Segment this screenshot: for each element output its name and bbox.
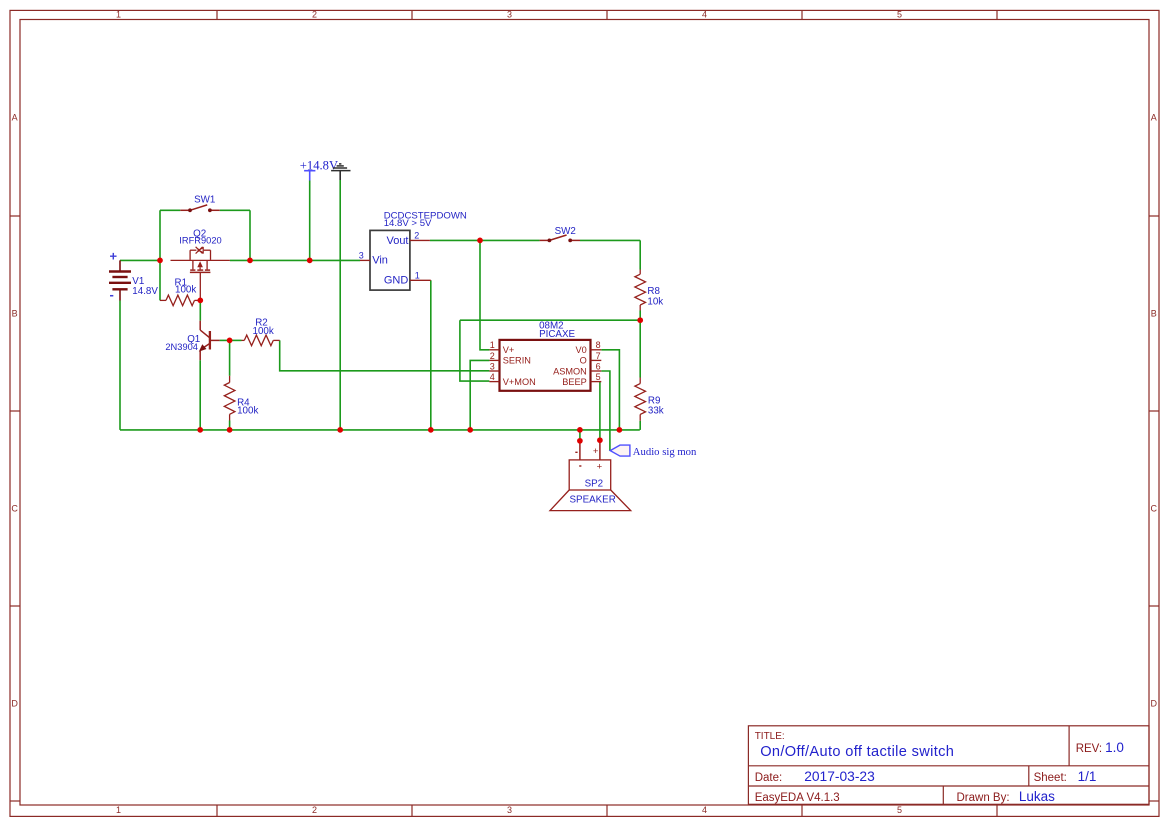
wire gate node to Q1 collector <box>199 300 201 320</box>
svg-text:4: 4 <box>490 372 495 382</box>
svg-text:3: 3 <box>359 250 364 260</box>
svg-text:ASMON: ASMON <box>553 366 587 376</box>
wire DCDC GND down to rail <box>430 280 432 430</box>
svg-text:Audio sig mon: Audio sig mon <box>633 446 697 458</box>
svg-text:A: A <box>12 112 18 122</box>
junction 5V net / Vout <box>477 238 483 244</box>
wire BEEP pin5 to speaker+ <box>599 382 601 441</box>
junction SW1 right / main wire <box>247 258 253 264</box>
pin 7 <box>591 351 602 361</box>
svg-text:+: + <box>593 446 599 457</box>
svg-text:V+MON: V+MON <box>503 377 536 387</box>
junction Q1 emitter / ground rail <box>197 427 203 433</box>
junction SERIN / ground rail <box>467 427 473 433</box>
wire to SW1 <box>160 209 180 211</box>
svg-text:2: 2 <box>312 10 317 20</box>
junction speaker- pin <box>577 438 583 444</box>
wire Q1 base to node <box>220 339 230 341</box>
wire R2 to pin3 <box>280 340 490 370</box>
svg-text:V+: V+ <box>503 345 515 355</box>
junction R4 / ground rail <box>227 427 233 433</box>
wire Q1 emitter to rail <box>199 360 201 430</box>
wire down to R8 <box>639 240 641 269</box>
pin 3 <box>489 361 499 371</box>
wire +14.8V flag down <box>309 181 311 261</box>
svg-text:4: 4 <box>702 805 707 815</box>
title block <box>748 726 1149 805</box>
svg-text:REV:: REV: <box>1076 743 1102 755</box>
wire SW1 left vertical <box>159 210 161 300</box>
wire SW2 to R8 <box>580 239 640 241</box>
resistor R2 100k <box>242 318 280 346</box>
svg-text:TITLE:: TITLE: <box>755 731 785 742</box>
svg-text:2N3904: 2N3904 <box>165 342 198 352</box>
wire Vout to SW2 <box>430 239 540 241</box>
svg-text:A: A <box>1151 112 1157 122</box>
transistor Q1 2N3904 <box>165 321 219 361</box>
resistor R4 100k <box>224 376 258 421</box>
junction speaker- / ground rail <box>577 427 583 433</box>
svg-text:2: 2 <box>414 231 419 241</box>
svg-text:B: B <box>1151 309 1157 319</box>
switch SW1 <box>180 194 219 212</box>
svg-text:1/1: 1/1 <box>1078 769 1097 784</box>
speaker SP2 <box>550 440 631 510</box>
svg-text:5: 5 <box>897 805 902 815</box>
svg-text:3: 3 <box>507 10 512 20</box>
svg-text:14.8V > 5V: 14.8V > 5V <box>384 218 432 229</box>
pin 1 GND <box>410 270 431 280</box>
wire ground symbol down <box>339 180 341 430</box>
svg-text:EasyEDA V4.1.3: EasyEDA V4.1.3 <box>755 792 840 804</box>
svg-text:1.0: 1.0 <box>1105 740 1124 755</box>
svg-text:B: B <box>12 309 18 319</box>
wire R8 node across <box>460 319 640 321</box>
pin 2 <box>489 351 499 361</box>
wire through Q2 (pins) <box>171 259 230 261</box>
svg-text:4: 4 <box>702 10 707 20</box>
svg-text:PICAXE: PICAXE <box>539 329 575 340</box>
battery V1 14.8V <box>109 249 158 302</box>
wire ground rail <box>120 429 640 431</box>
svg-text:D: D <box>11 699 18 709</box>
pin 3 Vin <box>359 250 370 260</box>
svg-text:V0: V0 <box>576 345 587 355</box>
svg-text:14.8V: 14.8V <box>132 286 158 297</box>
wire V0 pin8 to rail <box>601 350 619 430</box>
svg-text:2: 2 <box>490 351 495 361</box>
svg-text:1: 1 <box>415 270 420 280</box>
wire battery+ to node <box>120 259 160 261</box>
junction +14.8V net / main wire <box>307 258 313 264</box>
pin 2 Vout <box>410 231 430 241</box>
svg-text:1: 1 <box>490 340 495 350</box>
svg-text:5: 5 <box>897 10 902 20</box>
pin 5 <box>591 372 602 382</box>
net flag Audio sig mon <box>610 445 697 458</box>
svg-text:O: O <box>580 356 587 366</box>
wire SERIN pin2 to rail <box>470 360 489 430</box>
svg-text:100k: 100k <box>237 406 258 417</box>
pin 4 <box>489 372 499 382</box>
wire SW1 to right vertical <box>220 209 250 211</box>
svg-text:On/Off/Auto off tactile switch: On/Off/Auto off tactile switch <box>760 744 954 760</box>
transistor Q2 IRFR9020 (P-MOSFET) <box>179 228 221 300</box>
svg-text:100k: 100k <box>175 285 196 296</box>
junction R1/Q2 gate/Q1 collector <box>197 298 203 304</box>
wire battery- down <box>119 301 121 430</box>
svg-text:7: 7 <box>596 351 601 361</box>
wire 5V to V+ pin1 <box>480 240 489 349</box>
svg-text:Vout: Vout <box>386 235 408 247</box>
wire node to R9 <box>639 320 641 377</box>
junction speaker+ pin <box>597 437 603 443</box>
wire rail to speaker- <box>579 430 581 441</box>
svg-text:100k: 100k <box>253 326 274 337</box>
svg-text:2: 2 <box>312 805 317 815</box>
svg-text:SP2: SP2 <box>585 478 604 489</box>
wire node to R4 <box>229 340 231 375</box>
svg-text:+: + <box>597 462 603 473</box>
svg-text:GND: GND <box>384 275 409 287</box>
pin 1 <box>489 340 499 350</box>
svg-text:C: C <box>11 504 18 514</box>
svg-text:3: 3 <box>490 361 495 371</box>
svg-text:SPEAKER: SPEAKER <box>570 495 616 506</box>
ground <box>331 164 350 180</box>
wire to V+MON pin4 <box>460 320 490 381</box>
pin 8 <box>591 340 602 350</box>
wire SW1 right vertical <box>249 210 251 260</box>
wire node to Vin <box>230 259 360 261</box>
junction V0 / ground rail <box>617 427 623 433</box>
svg-text:8: 8 <box>596 340 601 350</box>
junction DCDC GND / ground rail <box>428 427 434 433</box>
svg-text:Vin: Vin <box>372 255 388 267</box>
svg-text:+: + <box>110 249 118 264</box>
svg-text:2017-03-23: 2017-03-23 <box>804 769 875 784</box>
wire ASMON pin6 to flag <box>601 371 610 451</box>
svg-text:Sheet:: Sheet: <box>1034 772 1067 784</box>
svg-text:5: 5 <box>596 372 601 382</box>
svg-text:10k: 10k <box>647 297 663 308</box>
svg-text:D: D <box>1151 699 1158 709</box>
junction battery+/SW1/Q2 source <box>157 258 163 264</box>
svg-text:Date:: Date: <box>755 772 783 784</box>
junction Q1 base/R2/R4 <box>227 338 233 344</box>
svg-text:3: 3 <box>507 805 512 815</box>
switch SW2 <box>540 226 580 242</box>
svg-text:Lukas: Lukas <box>1019 789 1055 804</box>
svg-text:C: C <box>1151 504 1158 514</box>
power flag +14.8V <box>300 158 338 180</box>
IC U1 PICAXE 08M2 <box>500 321 591 391</box>
svg-text:IRFR9020: IRFR9020 <box>179 236 221 246</box>
svg-text:BEEP: BEEP <box>562 377 587 387</box>
svg-text:SW2: SW2 <box>555 226 576 237</box>
svg-text:1: 1 <box>116 805 121 815</box>
svg-text:SERIN: SERIN <box>503 356 531 366</box>
svg-text:6: 6 <box>596 361 601 371</box>
junction GND symbol / ground rail <box>337 427 343 433</box>
wire R9 to rail <box>639 421 641 430</box>
pin 6 <box>591 361 602 371</box>
svg-text:33k: 33k <box>648 406 664 417</box>
wire node to R2 <box>230 339 242 341</box>
svg-text:R8: R8 <box>647 286 660 297</box>
wire R8 to node <box>639 311 641 321</box>
resistor R1 100k <box>160 277 200 305</box>
svg-text:SW1: SW1 <box>194 194 215 205</box>
DC-DC converter DCDCSTEPDOWN 14.8V>5V <box>370 210 467 290</box>
svg-text:1: 1 <box>116 10 121 20</box>
wire R4 to rail <box>229 421 231 430</box>
junction R8/R9/V+MON <box>637 317 643 323</box>
svg-text:Drawn By:: Drawn By: <box>957 792 1010 804</box>
svg-text:-: - <box>110 287 114 302</box>
resistor R9 33k <box>635 378 664 421</box>
resistor R8 10k <box>635 270 663 311</box>
